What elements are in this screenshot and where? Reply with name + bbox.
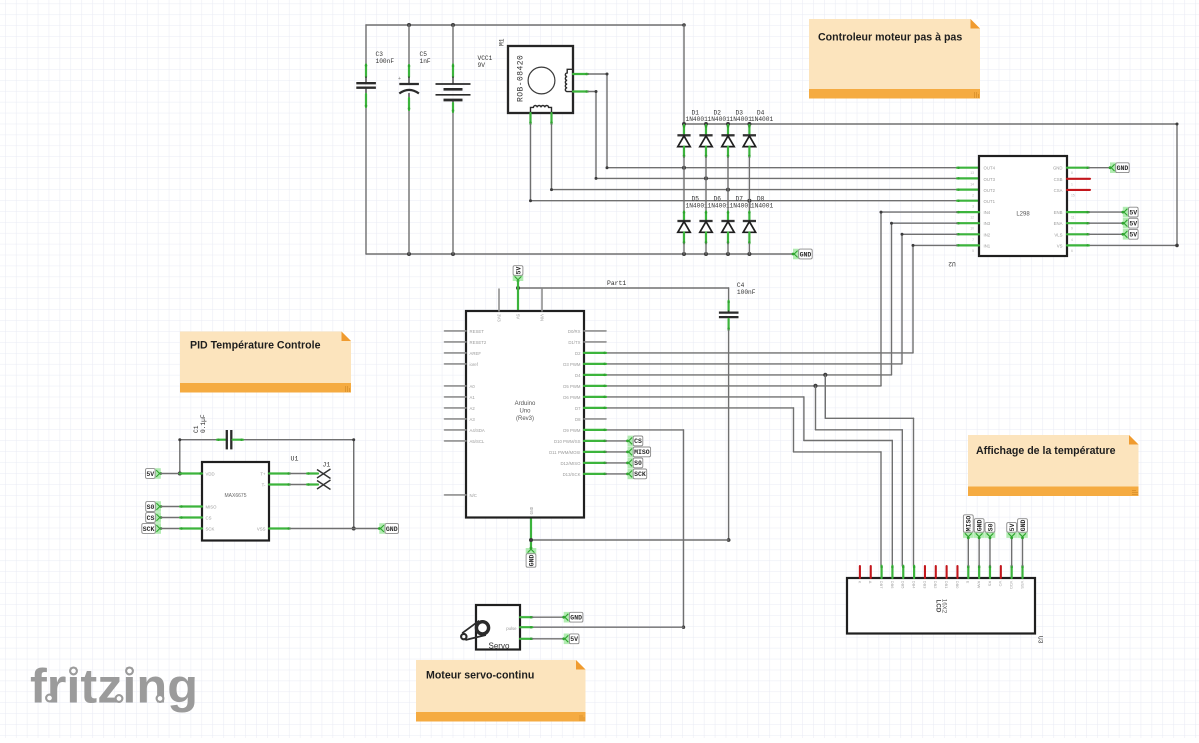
- svg-text:CS: CS: [634, 438, 642, 445]
- svg-text:10: 10: [970, 227, 974, 231]
- label U3: [1037, 636, 1044, 644]
- connector J1 thermocouple: [317, 462, 331, 490]
- wire: LCD VSS to GND flag: [1022, 538, 1024, 566]
- wire: ENB to 5V: [1067, 211, 1123, 214]
- svg-text:VDD: VDD: [206, 471, 215, 476]
- wire: T- to J1: [269, 483, 318, 486]
- wire: servo gnd: [520, 616, 564, 619]
- wire: LCD R/W to GND flag: [978, 538, 980, 566]
- svg-text:SCK: SCK: [143, 526, 155, 533]
- wire: LCD DB5 lead: [902, 566, 905, 578]
- flag MISO: [626, 447, 651, 458]
- svg-text:RESET2: RESET2: [470, 340, 487, 345]
- wire: D11 to MISO flag: [584, 451, 628, 454]
- svg-text:IN1: IN1: [984, 243, 991, 248]
- svg-text:6: 6: [1071, 249, 1073, 253]
- wire: D9 to servo pulse: [532, 430, 685, 629]
- wire: D4 lead: [584, 374, 606, 377]
- svg-text:RS: RS: [987, 581, 992, 587]
- svg-text:MISO: MISO: [634, 449, 650, 456]
- svg-text:S0: S0: [634, 460, 642, 467]
- svg-text:DB6: DB6: [890, 581, 895, 589]
- svg-text:A3: A3: [470, 417, 476, 422]
- svg-text:15: 15: [1071, 193, 1075, 197]
- svg-text:MISO: MISO: [206, 504, 218, 509]
- svg-text:5: 5: [972, 249, 974, 253]
- svg-text:IN3: IN3: [984, 221, 991, 226]
- fritzing logo: [30, 660, 198, 714]
- svg-text:OUT2: OUT2: [984, 188, 996, 193]
- svg-text:11: 11: [1071, 216, 1075, 220]
- svg-text:A4/SDA: A4/SDA: [470, 428, 485, 433]
- diode D6 1N4001: [699, 196, 730, 254]
- junction: D4-OUT1: [747, 199, 751, 203]
- svg-text:5V: 5V: [515, 267, 522, 275]
- svg-text:Moteur servo-continu: Moteur servo-continu: [426, 670, 534, 682]
- wire: LCD R/W lead: [978, 566, 981, 578]
- svg-text:VDD: VDD: [1009, 581, 1014, 589]
- wire: LCD VDD to 5V flag: [1011, 538, 1013, 566]
- wire: IN2 to Arduino D3: [606, 233, 957, 364]
- diode D2 1N4001: [699, 109, 730, 157]
- svg-text:13: 13: [970, 171, 974, 175]
- wire: IN4 lead: [957, 211, 979, 214]
- svg-text:GND: GND: [570, 615, 582, 622]
- servo motor: [461, 605, 520, 651]
- LCD U3 16X2: [847, 578, 1035, 634]
- svg-text:SCK: SCK: [206, 526, 215, 531]
- flag SCK: [626, 469, 647, 480]
- svg-text:S0: S0: [147, 504, 155, 511]
- svg-text:VSS: VSS: [257, 526, 266, 531]
- svg-text:D2: D2: [575, 351, 581, 356]
- label U1: [291, 456, 299, 463]
- junction: D2-OUT3: [704, 176, 708, 180]
- wire: Arduino right stubs: [584, 331, 606, 419]
- wire: OUT2 bus: [550, 188, 979, 191]
- wire: D10 to CS flag: [584, 440, 628, 443]
- svg-text:A2: A2: [470, 406, 476, 411]
- svg-text:9V: 9V: [478, 62, 486, 69]
- wire: C3 column: [365, 25, 367, 254]
- svg-text:SCK: SCK: [634, 471, 646, 478]
- svg-text:A1: A1: [470, 395, 476, 400]
- junction: D1-OUT4: [682, 166, 686, 170]
- wire: D6 lead: [584, 396, 606, 399]
- wire: D4 to D8 column: [748, 157, 750, 212]
- svg-text:0.1µF: 0.1µF: [200, 414, 207, 433]
- svg-text:VSS: VSS: [1020, 581, 1025, 589]
- wire: IN1 lead: [957, 244, 979, 247]
- svg-text:GND: GND: [976, 520, 983, 532]
- svg-text:VS: VS: [1057, 243, 1063, 248]
- svg-text:GND: GND: [1117, 165, 1129, 172]
- svg-text:DB2: DB2: [933, 581, 938, 589]
- note: Affichage de la temperature: [968, 435, 1139, 496]
- battery VCC1 9V: [436, 55, 493, 112]
- svg-text:1N4001: 1N4001: [751, 203, 774, 210]
- note: PID Temperature Controle: [180, 332, 351, 393]
- capacitor C1 0.1uF: [193, 414, 243, 449]
- svg-text:D11 PWM/MOSI: D11 PWM/MOSI: [549, 450, 580, 455]
- wire: motor pin B+ to OUT1: [529, 113, 532, 201]
- svg-text:DB4: DB4: [912, 581, 917, 589]
- svg-text:D10 PWM/SS: D10 PWM/SS: [554, 439, 581, 444]
- svg-text:1nF: 1nF: [420, 58, 431, 65]
- svg-text:D5 PWM: D5 PWM: [563, 384, 581, 389]
- svg-text:CS: CS: [147, 515, 155, 522]
- motor M1 ROB-08420: [499, 38, 574, 113]
- svg-text:A: A: [868, 581, 873, 584]
- svg-text:(Rev3): (Rev3): [516, 416, 534, 422]
- svg-text:5V: 5V: [570, 636, 578, 643]
- wire: C5 column: [408, 25, 410, 254]
- wire: LCD VSS lead: [1021, 566, 1024, 578]
- svg-text:MAX6675: MAX6675: [225, 493, 247, 499]
- svg-text:U1: U1: [291, 456, 299, 463]
- ground flag (Arduino GND): [526, 518, 537, 568]
- svg-text:OUT4: OUT4: [984, 166, 996, 171]
- wire: D2 to D6 column: [705, 157, 707, 212]
- wire: T+ to J1: [269, 472, 318, 475]
- svg-text:5V: 5V: [146, 471, 154, 478]
- svg-text:16X2: 16X2: [941, 599, 948, 614]
- diode D1 1N4001: [677, 109, 708, 157]
- svg-text:IN2: IN2: [984, 232, 991, 237]
- wire: C1 net: [178, 438, 356, 530]
- wire: ENA to 5V: [1067, 222, 1123, 225]
- svg-text:C1: C1: [193, 425, 200, 433]
- 5V flag (ENA): [1121, 218, 1138, 229]
- svg-text:D9 PWM: D9 PWM: [563, 428, 581, 433]
- svg-text:DB5: DB5: [901, 581, 906, 589]
- note: Controleur moteur pas a pas: [809, 19, 980, 99]
- svg-text:2: 2: [972, 193, 974, 197]
- wire: VCC1 column: [452, 25, 454, 254]
- wire: CSA stub (red): [1067, 189, 1090, 191]
- svg-text:OUT3: OUT3: [984, 177, 996, 182]
- wire: 5V to VDD: [161, 472, 202, 475]
- svg-text:AREF: AREF: [470, 351, 482, 356]
- svg-text:S0: S0: [987, 523, 994, 531]
- svg-text:fritzing: fritzing: [30, 660, 198, 714]
- wire: VLS to 5V: [1067, 233, 1123, 236]
- svg-text:D3 PWM: D3 PWM: [563, 362, 581, 367]
- svg-text:100nF: 100nF: [737, 289, 756, 296]
- wire: D2 lead: [584, 352, 606, 355]
- capacitor C3: [356, 51, 394, 107]
- svg-text:14: 14: [970, 182, 974, 186]
- flag MISO (LCD E): [963, 515, 974, 540]
- svg-text:VIN: VIN: [539, 314, 544, 321]
- svg-text:Arduino: Arduino: [515, 401, 536, 407]
- svg-text:L298: L298: [1016, 212, 1030, 218]
- wire: IN2 lead: [957, 233, 979, 236]
- svg-text:DB0: DB0: [955, 581, 960, 589]
- ground flag (L298): [1109, 162, 1130, 173]
- svg-text:R/W: R/W: [977, 581, 982, 589]
- svg-text:GND: GND: [1020, 520, 1027, 532]
- svg-text:A5/SCL: A5/SCL: [470, 439, 485, 444]
- wire: OUT3 bus: [595, 177, 980, 180]
- wire: OUT1 bus: [529, 199, 979, 202]
- capacitor C5: [398, 51, 431, 110]
- wire: C4 to GND: [531, 330, 730, 542]
- svg-text:+: +: [398, 76, 401, 82]
- wire: D6 to LCD DB6: [606, 397, 892, 566]
- ground flag (servo): [562, 612, 583, 623]
- wire: D5 lead: [584, 385, 606, 388]
- diode D3 1N4001: [721, 109, 752, 157]
- svg-text:100nF: 100nF: [376, 58, 395, 65]
- svg-text:8: 8: [1071, 171, 1073, 175]
- svg-text:GND: GND: [386, 526, 398, 533]
- wire: VS supply rail to L298: [682, 25, 1179, 247]
- wire: OUT4 bus: [606, 166, 980, 169]
- diode D7 1N4001: [721, 196, 752, 254]
- wire: bottom ground rail: [366, 252, 793, 256]
- svg-text:5V: 5V: [1129, 221, 1137, 228]
- wire: motor pin A+ to OUT4: [573, 73, 609, 168]
- svg-text:CSB: CSB: [1054, 177, 1063, 182]
- svg-text:D12/MISO: D12/MISO: [560, 461, 581, 466]
- note: Moteur servo-continu: [416, 660, 586, 722]
- svg-text:VO: VO: [998, 581, 1003, 587]
- svg-text:3V3: 3V3: [496, 314, 501, 322]
- wire: LCD DB7 lead: [880, 566, 883, 578]
- svg-text:5V: 5V: [515, 314, 520, 319]
- svg-text:pulse: pulse: [506, 626, 517, 631]
- svg-text:RESET: RESET: [470, 329, 485, 334]
- ground flag (left ground rail): [792, 249, 813, 260]
- wire: motor pin A- to OUT3: [573, 90, 598, 178]
- wire: LCD DB6 lead: [891, 566, 894, 578]
- flag SCK (MAX): [142, 523, 163, 534]
- Arduino Part1: [466, 311, 584, 518]
- wire: LCD unconnected stubs (red): [860, 566, 1001, 578]
- junction: D3-OUT2: [726, 188, 730, 192]
- diode D4 1N4001: [743, 109, 774, 157]
- svg-text:VLS: VLS: [1054, 232, 1062, 237]
- wire: D3 lead: [584, 363, 606, 366]
- svg-text:D7: D7: [575, 406, 581, 411]
- svg-text:D8: D8: [575, 417, 581, 422]
- svg-text:5V: 5V: [1009, 523, 1016, 531]
- wire: LCD E lead: [967, 566, 970, 578]
- wire: LCD RS to S0 flag: [989, 538, 991, 566]
- svg-text:5V: 5V: [1129, 232, 1137, 239]
- 5V flag (VLS): [1121, 229, 1138, 240]
- svg-text:U3: U3: [1037, 636, 1044, 644]
- svg-text:PID Température Controle: PID Température Controle: [190, 340, 321, 352]
- wire: motor pin B- to OUT2: [550, 113, 553, 190]
- wire: Arduino left stubs: [445, 331, 467, 495]
- svg-text:K: K: [857, 581, 862, 584]
- flag CS: [626, 436, 643, 447]
- svg-text:ioref: ioref: [470, 362, 479, 367]
- svg-text:9: 9: [1071, 227, 1073, 231]
- wire: 5V to C4: [516, 286, 729, 301]
- svg-text:Affichage de la température: Affichage de la température: [976, 445, 1116, 457]
- diode D8 1N4001: [743, 196, 774, 254]
- 5V flag (MAX6675 VDD): [146, 468, 163, 479]
- flag CS (MAX): [146, 512, 163, 523]
- svg-text:D1/TX: D1/TX: [568, 340, 580, 345]
- wire: D7 to LCD DB7: [606, 408, 881, 566]
- flag S0: [626, 458, 643, 469]
- wire: CS to CS pin: [161, 516, 202, 519]
- svg-text:12: 12: [970, 216, 974, 220]
- flag GND (LCD R/W): [974, 519, 985, 540]
- wire: LCD DB4 lead: [913, 566, 916, 578]
- svg-text:DB7: DB7: [879, 581, 884, 589]
- wire: VSS to GND: [269, 527, 379, 530]
- svg-text:D13/SCK: D13/SCK: [563, 472, 581, 477]
- wire: D13 to SCK flag: [584, 473, 628, 476]
- svg-text:GND: GND: [528, 555, 535, 567]
- svg-text:D6 PWM: D6 PWM: [563, 395, 581, 400]
- svg-text:1N4001: 1N4001: [730, 203, 753, 210]
- flag GND (LCD VSS): [1017, 519, 1028, 540]
- svg-text:LCD: LCD: [935, 600, 942, 613]
- svg-text:CSA: CSA: [1054, 188, 1063, 193]
- svg-text:1N4001: 1N4001: [686, 203, 709, 210]
- svg-text:4: 4: [1071, 238, 1073, 242]
- label Part1: [607, 280, 626, 287]
- flag 5V (LCD VDD): [1006, 523, 1017, 540]
- wire: IN4 to Arduino D5: [606, 211, 957, 388]
- wire: SCK to SCK pin: [161, 527, 202, 530]
- wire: VS lead: [1067, 244, 1089, 247]
- wire: top supply rail: [366, 23, 686, 27]
- wire: D4 branch to LCD DB4: [825, 375, 913, 566]
- svg-text:VCC1: VCC1: [478, 55, 493, 62]
- ground flag (MAX6675): [378, 523, 399, 534]
- wire: IN3 lead: [957, 222, 979, 225]
- svg-text:GND: GND: [1053, 166, 1063, 171]
- svg-text:D0/RX: D0/RX: [568, 329, 581, 334]
- svg-text:N/C: N/C: [470, 493, 477, 498]
- wire: CSB stub (red): [1067, 178, 1090, 180]
- svg-text:T-: T-: [262, 482, 266, 487]
- capacitor C4 100nF: [719, 282, 756, 330]
- svg-text:T+: T+: [260, 471, 266, 476]
- svg-text:ROB-08420: ROB-08420: [517, 55, 526, 102]
- svg-text:ENA: ENA: [1054, 221, 1063, 226]
- wire: IN1 to Arduino D2: [606, 244, 957, 353]
- svg-text:MISO: MISO: [966, 516, 973, 532]
- wire: LCD RS lead: [989, 566, 992, 578]
- svg-text:Part1: Part1: [607, 280, 626, 287]
- svg-text:E: E: [966, 581, 971, 584]
- svg-text:1N4001: 1N4001: [708, 203, 731, 210]
- svg-text:1N4001: 1N4001: [751, 116, 774, 123]
- flag S0 (MISO): [146, 501, 163, 512]
- svg-text:GND: GND: [800, 251, 812, 258]
- svg-text:A0: A0: [470, 384, 476, 389]
- svg-text:Uno: Uno: [519, 409, 531, 415]
- svg-text:7: 7: [972, 238, 974, 242]
- svg-text:D4: D4: [575, 373, 581, 378]
- svg-text:ENB: ENB: [1054, 210, 1063, 215]
- svg-text:CS: CS: [206, 515, 212, 520]
- label U2: [948, 260, 956, 267]
- wire: D3 to D7 column: [727, 157, 729, 212]
- wire: S0 to MISO: [161, 505, 202, 508]
- svg-text:1N4001: 1N4001: [730, 116, 753, 123]
- wire: servo 5V: [520, 638, 564, 641]
- wire: D5 branch to LCD DB5: [816, 386, 903, 566]
- IC U2 L298: [970, 156, 1075, 256]
- wire: LCD E to MISO flag: [967, 538, 969, 566]
- svg-text:DB3: DB3: [922, 581, 927, 589]
- svg-text:Servo: Servo: [489, 642, 510, 651]
- svg-text:1N4001: 1N4001: [686, 116, 709, 123]
- svg-text:U2: U2: [948, 260, 956, 267]
- IC U1 MAX6675: [202, 462, 269, 541]
- svg-text:DB1: DB1: [944, 581, 949, 589]
- svg-text:OUT1: OUT1: [984, 199, 996, 204]
- svg-text:1: 1: [1071, 182, 1073, 186]
- wire: servo pulse lead: [520, 626, 532, 629]
- wire: D9 lead: [584, 429, 606, 432]
- svg-text:IN4: IN4: [984, 210, 991, 215]
- 5V flag (servo): [562, 634, 579, 645]
- wire: D12 to S0 flag: [584, 462, 628, 465]
- wire: Arduino top stubs 3V3 VIN: [499, 289, 542, 311]
- wire: D7 lead: [584, 407, 606, 410]
- svg-text:Controleur moteur pas à pas: Controleur moteur pas à pas: [818, 32, 962, 44]
- flag S0 (LCD RS): [985, 523, 996, 540]
- wire: L298 GND: [1067, 166, 1110, 169]
- wire: D1 to D5 column: [683, 157, 685, 212]
- svg-text:GND: GND: [530, 506, 535, 514]
- wire: LCD VDD lead: [1010, 566, 1013, 578]
- wire: IN3 to Arduino D4: [606, 222, 957, 377]
- svg-text:M1: M1: [499, 38, 506, 46]
- svg-text:3: 3: [972, 205, 974, 209]
- 5V flag (ENB): [1121, 207, 1138, 218]
- diode D5 1N4001: [677, 196, 708, 254]
- svg-text:5V: 5V: [1129, 209, 1137, 216]
- svg-text:J1: J1: [323, 462, 331, 469]
- svg-text:1N4001: 1N4001: [708, 116, 731, 123]
- 5V flag (Arduino): [513, 266, 524, 311]
